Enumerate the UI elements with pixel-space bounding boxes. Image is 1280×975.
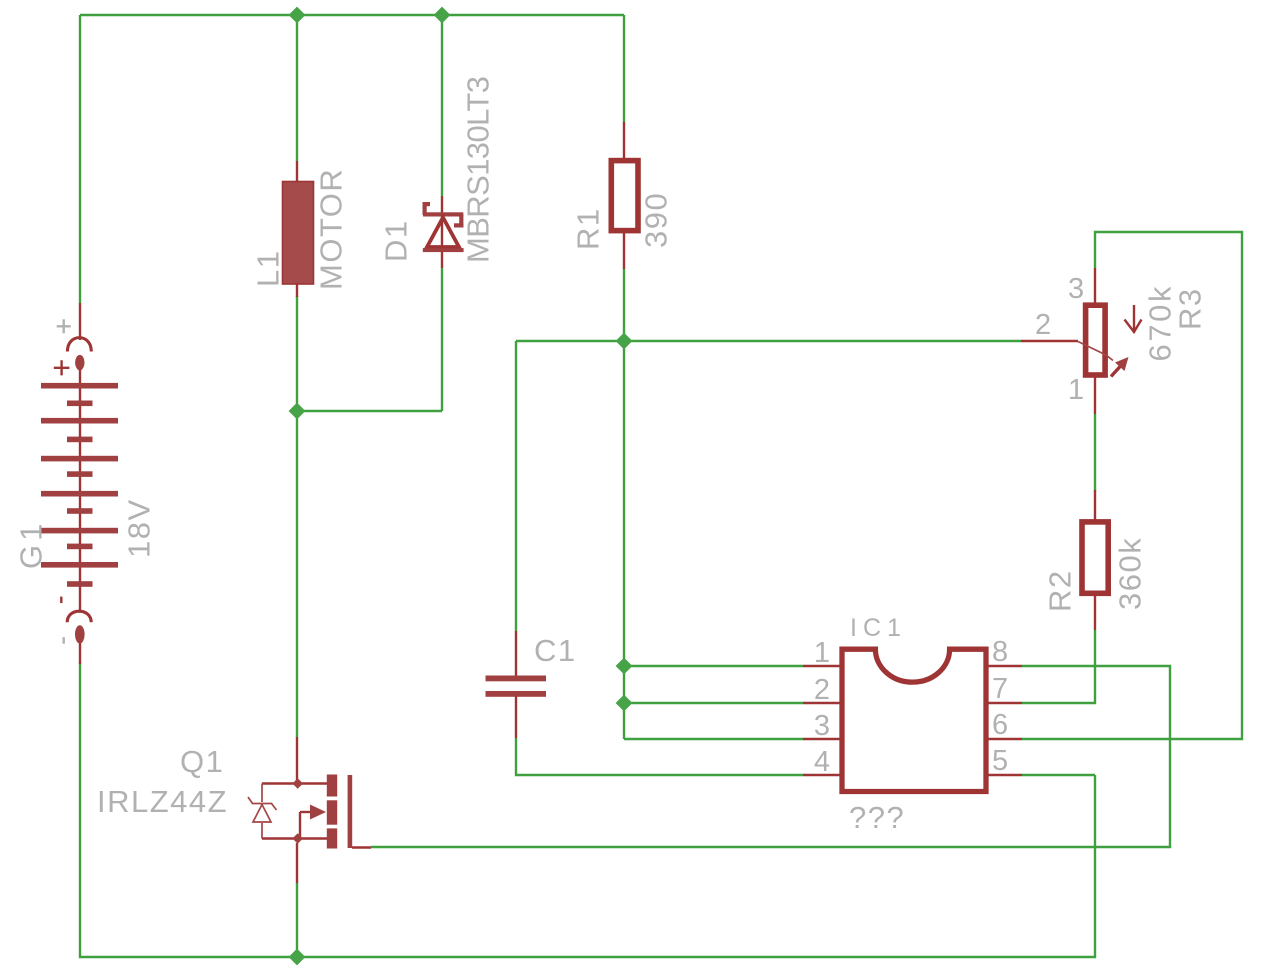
junction node pin2 [616, 695, 633, 712]
wire R1 bottom vertical to IC pin3 row [623, 269, 625, 739]
inductor L1 MOTOR [283, 161, 314, 297]
IC IC1 package [803, 649, 1022, 791]
svg-text:MOTOR: MOTOR [314, 168, 349, 290]
capacitor C1 [486, 631, 547, 738]
wire VCC to L1 top [296, 15, 298, 161]
junction dot top-right [434, 7, 451, 24]
svg-text:3: 3 [814, 710, 834, 742]
transistor Q1 MOSFET [248, 737, 371, 883]
wire L1 bottom to Q1 drain [296, 296, 298, 737]
svg-text:1: 1 [814, 637, 834, 669]
resistor R2 [1082, 490, 1108, 630]
wire net IC pin7 to R2 bottom [1022, 630, 1095, 703]
diode D1 schottky [423, 196, 464, 268]
wire branch to IC pin2 [624, 702, 803, 704]
wire D1 anode drop [441, 268, 443, 411]
svg-text:R3: R3 [1173, 287, 1208, 330]
svg-text:L1: L1 [251, 250, 286, 287]
svg-text:D1: D1 [379, 219, 414, 262]
wire IC pin5 stub to GND riser [1022, 774, 1095, 776]
potentiometer R3 [1021, 268, 1142, 414]
junction node R1 bottom [616, 333, 633, 350]
svg-text:MBRS130LT3: MBRS130LT3 [461, 77, 496, 263]
resistor R1 [611, 122, 638, 269]
svg-text:2: 2 [1035, 309, 1055, 341]
wire net R3 pin1 to R2 top [1094, 414, 1096, 491]
wire GND bottom rail from battery minus to IC pin5 [80, 663, 1095, 957]
svg-text:7: 7 [992, 673, 1012, 705]
wire branch to IC pin3 [624, 738, 803, 740]
svg-text:R1: R1 [571, 207, 606, 250]
svg-text:390: 390 [639, 192, 674, 248]
wire Q1 source to GND rail [296, 883, 298, 957]
wire net C1-bottom to IC pin4 [516, 738, 803, 775]
svg-text:2: 2 [814, 674, 834, 706]
wire VCC top rail horizontal [80, 14, 624, 16]
wire node A horizontal to D1 branch [297, 410, 442, 412]
wire C1 top drop [515, 341, 517, 631]
svg-text:18V: 18V [122, 498, 157, 558]
svg-text:???: ??? [849, 800, 905, 835]
svg-text:5: 5 [992, 745, 1012, 777]
wire node B horizontal to R3 wiper [516, 340, 1021, 342]
svg-text:1: 1 [1068, 374, 1088, 406]
wire VCC left drop to battery plus [79, 15, 81, 303]
svg-text:360k: 360k [1113, 537, 1148, 610]
svg-text:4: 4 [814, 746, 834, 778]
junction node pin1 [616, 658, 633, 675]
svg-text:C1: C1 [534, 633, 577, 668]
svg-text:IRLZ44Z: IRLZ44Z [97, 784, 228, 819]
svg-text:R2: R2 [1043, 569, 1078, 612]
junction node motor/D1/drain [289, 403, 306, 420]
svg-text:Q1: Q1 [180, 744, 224, 779]
wire VCC to R1 top [623, 15, 625, 122]
svg-text:G1: G1 [14, 520, 49, 569]
svg-text:8: 8 [992, 636, 1012, 668]
junction dot top-left [289, 7, 306, 24]
svg-text:3: 3 [1068, 273, 1088, 305]
wire net IC pin6 to R3 pin3 [1022, 232, 1242, 739]
junction node GND [289, 949, 306, 966]
battery G1 [41, 303, 118, 664]
wire VCC to D1 cathode [441, 15, 443, 196]
svg-text:IC1: IC1 [850, 614, 907, 642]
svg-text:6: 6 [992, 709, 1012, 741]
wire branch to IC pin1 [624, 665, 803, 667]
wire net IC pin8 to Q1 gate [371, 666, 1170, 847]
